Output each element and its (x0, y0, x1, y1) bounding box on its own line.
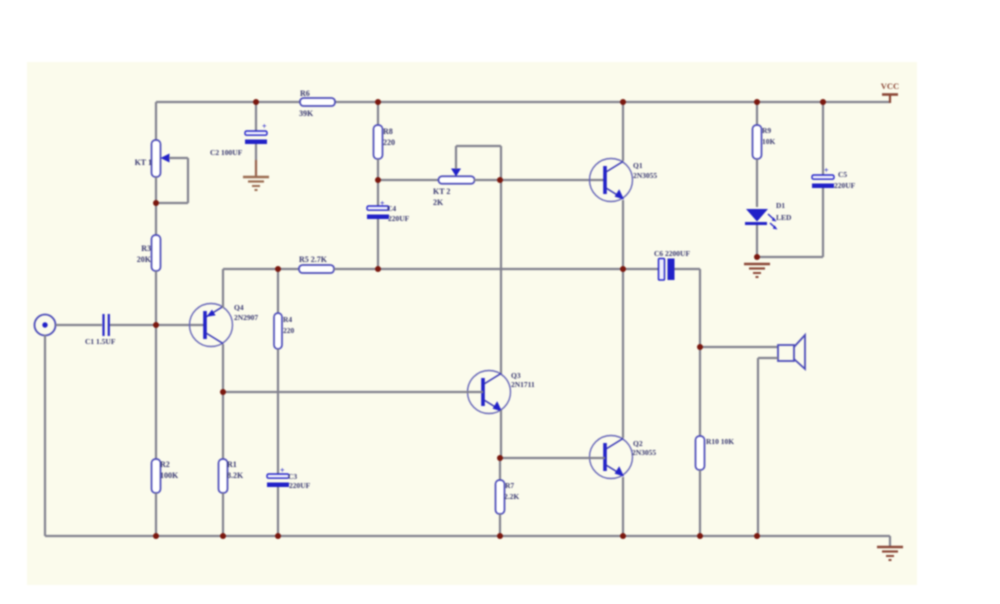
power symbol VCC bar (882, 93, 898, 96)
wire R5 rail right (334, 268, 660, 270)
node R4 top (275, 266, 281, 272)
wire KT1 wiper loop (159, 158, 188, 203)
label R3 (141, 244, 151, 253)
svg-text:D1: D1 (776, 201, 785, 210)
capacitor C6 left plate (659, 259, 665, 281)
label C3 plus (280, 466, 285, 475)
label R2 value (160, 471, 179, 480)
speaker LS1 horn (794, 335, 805, 369)
label C3 (288, 472, 297, 481)
wire speaker bottom lead (758, 358, 778, 536)
wire Q3 base (223, 391, 483, 393)
svg-text:220UF: 220UF (388, 214, 410, 223)
resistor R5 body (299, 265, 334, 273)
resistor R2 body (152, 459, 161, 493)
label R6 (300, 89, 310, 98)
label R9 (762, 126, 771, 135)
resistor R6 body (300, 98, 335, 106)
svg-text:Q2: Q2 (633, 439, 643, 448)
svg-text:KT 2: KT 2 (433, 187, 450, 196)
label R4 (283, 315, 292, 324)
wire KT2 wiper (456, 146, 501, 180)
node rail C3 (275, 533, 281, 539)
node R9 top (754, 99, 760, 105)
node R8 top (375, 99, 381, 105)
label R8 (383, 127, 393, 136)
svg-text:2N3055: 2N3055 (633, 171, 657, 180)
node C5 top (820, 99, 826, 105)
svg-text:+: + (824, 166, 829, 175)
transistor Q4 2N2907 (190, 304, 233, 347)
svg-text:Q3: Q3 (511, 371, 521, 380)
label R8 value (383, 138, 395, 147)
capacitor C3 (267, 474, 289, 487)
node Q3 emitter junction (497, 455, 503, 461)
label R4 value (283, 326, 295, 335)
svg-text:R4: R4 (283, 315, 292, 324)
node Q1 collector top (620, 99, 626, 105)
node Q1 emitter junction (620, 266, 626, 272)
node rail Q2 (620, 533, 626, 539)
label R3 value (137, 255, 152, 264)
wire R8 to KT2 rail (377, 159, 379, 181)
svg-text:C2 100UF: C2 100UF (210, 148, 243, 157)
wire R7 top (499, 458, 501, 480)
wire C5 top (822, 102, 824, 175)
svg-text:C4: C4 (387, 204, 396, 213)
wire R9 to D1 (756, 159, 758, 207)
wire R8 top (377, 102, 379, 125)
node KT2-Q3 junction (497, 177, 503, 183)
wire KT1 top (155, 102, 157, 141)
svg-text:+: + (280, 466, 285, 475)
wire Q3 emitter (500, 410, 502, 458)
label C5 value (834, 181, 856, 190)
capacitor C1 plates (104, 314, 109, 336)
node rail R7 (497, 533, 503, 539)
svg-text:2N3055: 2N3055 (632, 448, 656, 457)
label C2 value (210, 148, 243, 157)
node rail R1 (220, 533, 226, 539)
svg-text:R10 10K: R10 10K (706, 437, 734, 446)
wire C4 bottom (377, 219, 379, 269)
resistor R9 body (753, 125, 762, 159)
label C1 value (85, 337, 116, 346)
svg-text:C6 2200UF: C6 2200UF (654, 249, 690, 258)
label R7 value (504, 492, 519, 501)
svg-text:R5 2.7K: R5 2.7K (299, 255, 328, 264)
node R4 riser top (277, 269, 279, 313)
label Q2 part (632, 448, 656, 457)
wire KT1 bottom to R3 (155, 177, 157, 235)
svg-text:C5: C5 (838, 170, 847, 179)
wire Q4 collector to R1 (222, 392, 224, 459)
wire ground rail corner (889, 536, 891, 546)
wire top VCC rail right of R6 (334, 101, 890, 103)
label Q4 part (234, 313, 258, 322)
wire top VCC rail left of R6 (156, 101, 301, 103)
wire input node to R2 (155, 325, 157, 459)
node speaker junction (697, 344, 703, 350)
capacitor C5 (812, 175, 834, 188)
wire jack to C1 (56, 324, 103, 326)
node input-base junction (153, 322, 159, 328)
wire Q2 base (500, 457, 605, 459)
label C2 plus (262, 122, 267, 131)
label C4 (387, 204, 396, 213)
resistor R10 body (696, 436, 705, 470)
label Q3 (511, 371, 521, 380)
ground below D1 (744, 264, 770, 277)
wire KT2 left (378, 179, 440, 181)
wire D1 to ground node (756, 225, 758, 258)
resistor R1 body (219, 459, 228, 493)
wire Q4 collector drop (222, 344, 224, 392)
svg-text:+: + (262, 122, 267, 131)
potentiometer KT2 body (439, 176, 475, 184)
wire jack down (44, 335, 46, 536)
wire R2 to ground rail (155, 493, 157, 536)
svg-text:R7: R7 (505, 481, 514, 490)
wire R10 top (699, 347, 701, 436)
wire C6 to speaker riser (675, 269, 701, 347)
wire bottom ground rail (45, 535, 890, 537)
wire Q1 collector (622, 102, 624, 161)
label C4 value (388, 214, 410, 223)
resistor R7 body (496, 480, 505, 514)
wire R7 bottom (499, 514, 501, 536)
label R1 value (227, 471, 244, 480)
wire Q1-Q2 link (622, 269, 624, 438)
capacitor C4 top wire (377, 180, 379, 206)
wire R1 bottom (222, 493, 224, 536)
capacitor C6 right plate (668, 259, 675, 281)
svg-text:220UF: 220UF (289, 481, 311, 490)
connector J1 input jack (35, 315, 56, 336)
ground below C2 (243, 177, 269, 190)
label D1 (776, 201, 785, 210)
svg-text:+: + (380, 199, 385, 208)
label KT2 value (433, 198, 444, 207)
speaker LS1 frame (778, 345, 794, 361)
potentiometer KT1 body (152, 140, 161, 177)
wire KT2 right to Q1 base (474, 179, 605, 181)
label C6 value (654, 249, 690, 258)
label Q3 part (511, 380, 535, 389)
svg-text:R6: R6 (300, 89, 310, 98)
node D1 bottom (754, 254, 760, 260)
transistor Q2 2N3055 (590, 436, 633, 479)
svg-text:10K: 10K (762, 137, 776, 146)
label C5 (838, 170, 847, 179)
wire R4 to C3 (277, 349, 279, 474)
wire Q4 emitter riser (222, 269, 224, 308)
node rail speaker (754, 533, 760, 539)
label KT1 (135, 158, 152, 167)
capacitor C2 top wire (255, 102, 257, 131)
node C2 top (253, 99, 259, 105)
label R7 (505, 481, 514, 490)
label KT2 (433, 187, 450, 196)
wire C2 to ground (255, 144, 257, 176)
svg-text:2.2K: 2.2K (504, 492, 519, 501)
node Q4 collector junction (220, 389, 226, 395)
diode D1 LED triangle (746, 209, 768, 222)
resistor R3 body (152, 235, 161, 271)
node rail R2 (153, 533, 159, 539)
label R1 (227, 460, 237, 469)
label R5 (299, 255, 328, 264)
potentiometer KT2 wiper arrow (451, 169, 461, 177)
wire R3 to input node (155, 271, 157, 325)
svg-text:R2: R2 (160, 460, 170, 469)
wire Q2 emitter to rail (622, 477, 624, 536)
node KT1 wiper junction (153, 200, 159, 206)
svg-text:Q4: Q4 (234, 303, 244, 312)
transistor Q1 2N3055 (590, 159, 633, 202)
label R10 value (706, 437, 734, 446)
svg-text:2N1711: 2N1711 (511, 380, 535, 389)
svg-text:C1 1.5UF: C1 1.5UF (85, 337, 116, 346)
capacitor C2 (245, 131, 267, 144)
label Q1 part (633, 171, 657, 180)
wire R10 bottom (699, 470, 701, 536)
transistor Q3 2N1711 (468, 371, 511, 414)
node C4 bottom (375, 266, 381, 272)
resistor R4 body (274, 313, 282, 349)
svg-text:8.2K: 8.2K (227, 471, 244, 480)
svg-text:220: 220 (283, 326, 295, 335)
svg-text:20K: 20K (137, 255, 152, 264)
label C3 value (289, 481, 311, 490)
svg-text:VCC: VCC (881, 81, 899, 91)
label Q2 (633, 439, 643, 448)
svg-text:39K: 39K (299, 109, 314, 118)
label D1 part (776, 213, 792, 222)
svg-text:100K: 100K (160, 471, 179, 480)
svg-text:2K: 2K (433, 198, 444, 207)
capacitor C4 (367, 206, 389, 219)
svg-text:C3: C3 (288, 472, 297, 481)
label C5 plus (824, 166, 829, 175)
svg-text:220: 220 (383, 138, 395, 147)
wire Q1 emitter (622, 200, 624, 269)
label Q1 (633, 161, 643, 170)
resistor R8 body (374, 125, 383, 159)
wire D1-C5 link (757, 187, 823, 257)
node R8-KT2 junction (375, 177, 381, 183)
wire C1 to Q4 base (110, 324, 204, 326)
svg-text:R8: R8 (383, 127, 393, 136)
wire Q3 collector riser (500, 180, 502, 374)
diode D1 cathode bar (745, 222, 767, 225)
diode D1 arrows (768, 214, 778, 230)
svg-text:R1: R1 (227, 460, 237, 469)
svg-text:R9: R9 (762, 126, 771, 135)
label R9 value (762, 137, 776, 146)
label R6 value (299, 109, 314, 118)
potentiometer KT1 wiper arrow (161, 154, 170, 163)
wire R9 top (756, 102, 758, 125)
svg-text:LED: LED (776, 213, 792, 222)
svg-text:220UF: 220UF (834, 181, 856, 190)
wire VCC stub (889, 95, 891, 103)
node rail R10 (697, 533, 703, 539)
wire C3 bottom (277, 487, 279, 536)
svg-text:R3: R3 (141, 244, 151, 253)
label R2 (160, 460, 170, 469)
wire R5 rail left corner (223, 268, 301, 270)
ground bottom right (877, 547, 903, 560)
svg-text:KT 1: KT 1 (135, 158, 152, 167)
svg-text:2N2907: 2N2907 (234, 313, 258, 322)
label Q4 (234, 303, 244, 312)
wire speaker top lead (700, 346, 778, 348)
label VCC (881, 81, 899, 91)
svg-text:Q1: Q1 (633, 161, 643, 170)
label C4 plus (380, 199, 385, 208)
